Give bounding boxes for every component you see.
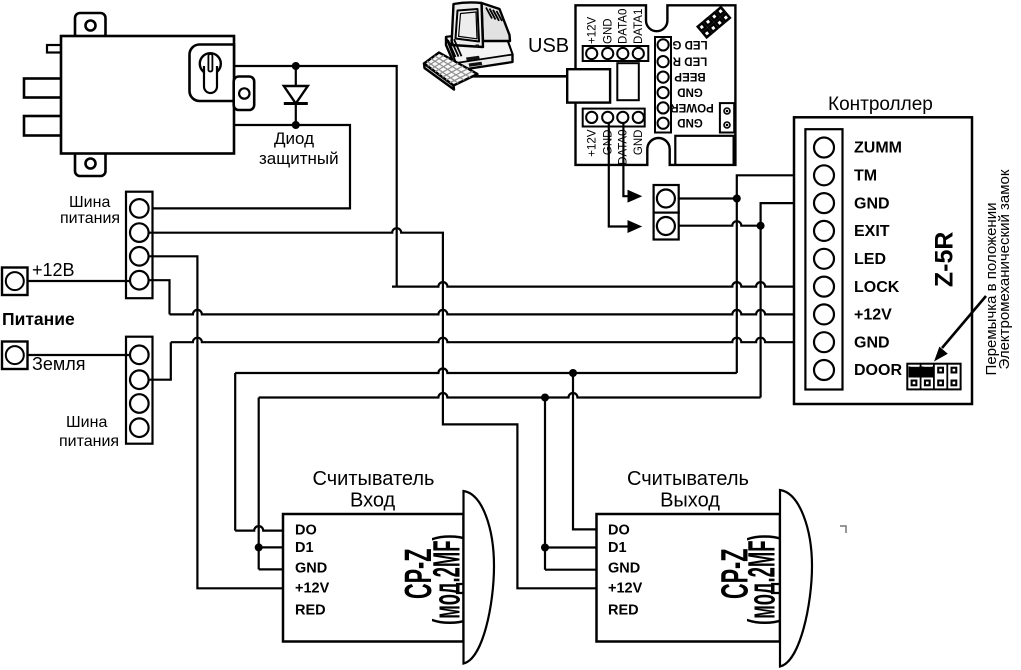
svg-text:LED G: LED G xyxy=(672,38,707,50)
svg-text:DATA0: DATA0 xyxy=(618,130,630,165)
svg-text:DATA0: DATA0 xyxy=(618,9,630,44)
svg-text:DOOR: DOOR xyxy=(854,362,902,379)
svg-text:TM: TM xyxy=(854,168,877,185)
svg-text:Шина: Шина xyxy=(66,414,107,431)
svg-text:DO: DO xyxy=(295,523,317,539)
jumper block xyxy=(907,364,960,390)
wire: lock bottom terminal to power bus c1 xyxy=(148,125,350,208)
svg-text:(мод.2MF): (мод.2MF) xyxy=(427,534,469,625)
svg-text:RED: RED xyxy=(295,603,326,619)
svg-text:Вход: Вход xyxy=(350,490,396,512)
wire bus c3 to reader1 +12V xyxy=(148,256,283,588)
electromechanical lock body xyxy=(24,13,254,176)
wire bus c4 to controller +12V xyxy=(148,280,170,314)
svg-text:ZUMM: ZUMM xyxy=(854,140,902,157)
D1/GND drop reader2 xyxy=(545,398,597,570)
pin header 2x4 rotated xyxy=(696,5,732,39)
small artifact mark xyxy=(840,526,846,533)
board bottom-right block xyxy=(675,136,733,165)
svg-text:GND: GND xyxy=(608,561,640,577)
svg-text:питания: питания xyxy=(59,433,119,450)
svg-text:+12V: +12V xyxy=(587,16,599,44)
svg-text:Шина: Шина xyxy=(69,194,110,211)
+12V input terminal xyxy=(2,268,28,296)
svg-text:DO: DO xyxy=(608,523,630,539)
svg-text:GND: GND xyxy=(603,18,615,44)
wire bus c2 to reader2 +12V xyxy=(148,228,597,588)
svg-text:+12В: +12В xyxy=(32,260,75,280)
board bottom terminal strip xyxy=(583,109,645,127)
svg-text:+12V: +12V xyxy=(854,307,892,324)
Z-2 USB adapter board xyxy=(576,5,736,165)
reader 1 dome xyxy=(464,491,495,664)
jumper arrow xyxy=(942,296,986,348)
svg-text:Электромеханический замок: Электромеханический замок xyxy=(996,169,1013,369)
svg-text:LED: LED xyxy=(854,251,886,268)
diode D1 protective xyxy=(284,66,308,125)
svg-text:+12V: +12V xyxy=(295,581,330,597)
TM net: block1 to controller TM and readers DO xyxy=(675,197,737,199)
single terminal block 2 (GND) xyxy=(654,213,679,240)
svg-text:GND: GND xyxy=(677,86,703,98)
svg-text:LED R: LED R xyxy=(672,55,707,67)
wire: lock top terminal to LOCK net xyxy=(234,66,397,282)
wire LOCK horizontal with hops xyxy=(397,282,814,287)
DO branch to reader2 xyxy=(573,373,597,529)
wire ground input to lower bus c1 xyxy=(28,354,131,356)
computer icon xyxy=(446,2,513,70)
svg-text:питания: питания xyxy=(60,210,120,227)
board top terminal strip xyxy=(583,46,649,61)
svg-text:+12V: +12V xyxy=(587,129,599,157)
svg-text:Считыватель: Считыватель xyxy=(313,468,435,490)
lower power bus terminal block xyxy=(126,337,153,444)
svg-text:Считыватель: Считыватель xyxy=(627,468,749,490)
svg-text:Питание: Питание xyxy=(2,309,75,329)
svg-text:DATA1: DATA1 xyxy=(633,9,645,44)
svg-text:BEEP: BEEP xyxy=(674,70,706,82)
svg-text:EXIT: EXIT xyxy=(854,223,890,240)
2-pin connector right xyxy=(720,103,734,132)
svg-text:(мод.2MF): (мод.2MF) xyxy=(742,534,784,625)
svg-text:D1: D1 xyxy=(295,540,314,556)
svg-text:GND: GND xyxy=(633,130,645,156)
wire lower bus c2 to controller GND xyxy=(148,342,171,380)
svg-text:LOCK: LOCK xyxy=(854,279,900,296)
controller box Z-5R xyxy=(794,117,972,404)
svg-text:GND: GND xyxy=(854,195,890,212)
svg-text:GND: GND xyxy=(295,561,327,577)
svg-text:Земля: Земля xyxy=(32,354,86,374)
svg-text:+12V: +12V xyxy=(608,581,643,597)
D1/GND drop reader1 xyxy=(259,398,283,570)
reader 2 dome xyxy=(780,490,812,667)
computer wire to USB adapter xyxy=(470,75,567,78)
wires from bottom strip xyxy=(609,123,628,227)
ground input terminal xyxy=(2,342,28,370)
board right vertical strip xyxy=(655,37,671,133)
svg-text:Контроллер: Контроллер xyxy=(828,94,933,115)
svg-text:Диод: Диод xyxy=(274,129,314,148)
svg-text:GND: GND xyxy=(854,334,890,351)
DO drop to reader1 xyxy=(235,373,283,531)
svg-text:GND: GND xyxy=(677,116,703,128)
chip xyxy=(617,63,639,100)
USB connector on board xyxy=(567,69,610,102)
svg-text:Z-5R: Z-5R xyxy=(931,232,959,288)
svg-text:защитный: защитный xyxy=(259,149,339,168)
upper power bus terminal block xyxy=(126,192,153,299)
svg-text:POWER: POWER xyxy=(670,101,714,113)
wire +12V input to bus c4 xyxy=(28,280,131,282)
svg-text:USB: USB xyxy=(528,35,569,57)
svg-text:RED: RED xyxy=(608,603,639,619)
svg-text:D1: D1 xyxy=(608,540,627,556)
svg-text:Выход: Выход xyxy=(660,490,720,512)
svg-text:GND: GND xyxy=(603,130,615,156)
single terminal block 1 (TM) xyxy=(654,185,679,213)
GND net: block2 to controller GND and readers D1/GND xyxy=(675,221,761,226)
